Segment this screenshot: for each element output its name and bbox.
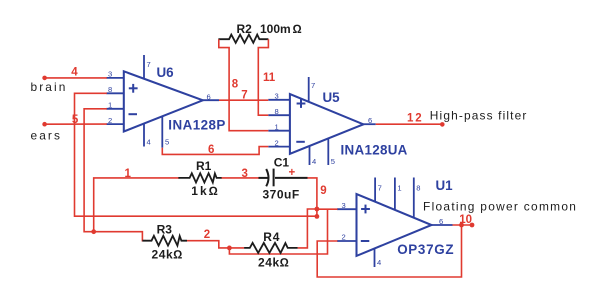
wire 4 brain to U6 pin3: [45, 77, 107, 79]
svg-text:2: 2: [275, 138, 279, 147]
op-amp U1 (OP37GZ triangle): [357, 194, 432, 256]
svg-text:3: 3: [275, 92, 279, 101]
svg-text:C1: C1: [274, 156, 290, 170]
svg-text:4: 4: [377, 258, 381, 267]
svg-text:1: 1: [275, 122, 279, 131]
svg-text:R1: R1: [196, 159, 212, 173]
U5 pin 4 (bottom): [309, 146, 311, 165]
svg-text:8: 8: [275, 107, 279, 116]
svg-text:6: 6: [368, 116, 372, 125]
svg-text:8: 8: [416, 184, 420, 193]
node U1 output junction: [459, 223, 464, 228]
svg-text:5: 5: [331, 157, 335, 166]
U5 pin 5 (ref): [327, 138, 329, 165]
svg-text:24kΩ: 24kΩ: [152, 248, 183, 262]
wire 1 from R1 left down to R3 node: [94, 178, 180, 232]
node brain input: [42, 76, 47, 81]
svg-text:9: 9: [320, 185, 326, 197]
resistor R2 zigzag: [218, 35, 268, 43]
svg-text:7: 7: [378, 184, 382, 193]
U1 minus symbol: [361, 240, 370, 242]
wire 6 U6 pin5 to U5 pin2: [162, 147, 268, 155]
svg-text:2: 2: [342, 233, 346, 242]
svg-text:11: 11: [263, 72, 276, 84]
svg-text:7: 7: [311, 81, 315, 90]
U5 minus symbol: [296, 141, 305, 143]
resistor R4 zigzag: [244, 243, 298, 253]
svg-text:12: 12: [407, 112, 423, 124]
U6 pin 7 (top): [143, 55, 145, 79]
svg-text:3: 3: [342, 201, 346, 210]
U6 minus symbol: [129, 113, 138, 115]
U1 input stubs (pins 3,2): [337, 209, 357, 241]
svg-text:1: 1: [108, 101, 112, 110]
wire 9 C1 right down to node: [308, 178, 317, 217]
svg-text:R2: R2: [237, 22, 253, 36]
wire 7 U6 out to U5 pin3: [219, 99, 268, 101]
node 10 terminal: [470, 223, 475, 228]
U5 plus symbol: [297, 99, 306, 108]
svg-text:5: 5: [72, 114, 79, 126]
op-amp U5 (INA128UA triangle): [290, 94, 364, 154]
node 9 lower dot: [315, 214, 320, 219]
svg-text:High-pass filter: High-pass filter: [430, 109, 528, 123]
svg-text:24kΩ: 24kΩ: [258, 255, 289, 269]
node wire2 junction dot: [227, 246, 232, 251]
U6 pin 5 (ref): [161, 116, 163, 147]
svg-text:OP37GZ: OP37GZ: [397, 242, 454, 257]
wire node9 jog to R4 right: [298, 209, 317, 248]
wire 12 U5 output: [376, 123, 443, 125]
svg-text:3: 3: [242, 168, 248, 180]
wire R2 right lead bracket (net 11): [258, 39, 268, 115]
svg-text:1: 1: [397, 184, 401, 193]
U5 pin stubs left (pins 3,8,1,2): [268, 100, 290, 147]
svg-text:6: 6: [208, 144, 214, 156]
svg-text:8: 8: [108, 85, 112, 94]
U1 pin 1 (top): [394, 178, 396, 210]
wire U1 minus feedback from output bottom rail: [317, 225, 461, 277]
U6 pin stubs left (pins 3,8,1,2): [106, 78, 123, 124]
svg-text:100m: 100m: [260, 22, 291, 36]
U1 output stub pin 6: [432, 224, 453, 226]
svg-text:2: 2: [108, 116, 112, 125]
wire 5 ears to U6 pin2: [45, 123, 107, 125]
svg-text:4: 4: [71, 66, 78, 78]
wire 10 U1 output: [453, 224, 472, 226]
U1 plus symbol: [361, 205, 370, 214]
node 12 terminal: [440, 122, 445, 127]
svg-text:3: 3: [108, 70, 112, 79]
wire R2 left lead bracket (net 8): [219, 39, 268, 131]
U1 pin 8 (top): [413, 178, 415, 218]
wire node9 to U1 pin3: [317, 208, 338, 210]
node 9 upper dot: [315, 207, 320, 212]
svg-text:Ω: Ω: [293, 22, 302, 36]
svg-text:370uF: 370uF: [263, 188, 300, 202]
op-amp U6 (INA128P triangle): [124, 71, 203, 131]
svg-text:8: 8: [232, 79, 239, 91]
svg-text:U1: U1: [436, 178, 454, 193]
wire U6 pin1 down to R3 left: [84, 109, 146, 241]
U5 pin 7 (top): [308, 77, 310, 102]
svg-text:+: +: [289, 167, 296, 179]
svg-text:1: 1: [125, 168, 132, 180]
U1 pin 7 (top): [374, 178, 376, 202]
svg-text:7: 7: [241, 90, 247, 102]
svg-text:INA128UA: INA128UA: [341, 142, 408, 157]
svg-text:4: 4: [312, 157, 316, 166]
svg-text:INA128P: INA128P: [168, 118, 225, 133]
node junction R1/R3/U6pin1: [91, 229, 96, 234]
svg-text:brain: brain: [31, 80, 68, 94]
svg-text:7: 7: [147, 60, 151, 69]
U6 output stub pin 6: [203, 99, 219, 101]
svg-text:10: 10: [459, 214, 472, 226]
wire U6 pin8 down and right rail to node 9: [75, 93, 317, 216]
wire 3 R1 to C1: [222, 177, 260, 179]
capacitor C1: [259, 169, 308, 187]
U6 pin 4 (bottom): [143, 124, 145, 147]
resistor R1 zigzag: [178, 173, 222, 182]
svg-text:U5: U5: [323, 90, 341, 105]
svg-text:5: 5: [165, 137, 169, 146]
U5 output stub pin 6: [363, 123, 375, 125]
wire wire2 rail up to U1 plus line: [229, 209, 327, 254]
svg-text:ears: ears: [31, 129, 63, 143]
svg-text:R4: R4: [263, 230, 280, 244]
svg-text:2: 2: [204, 229, 210, 241]
node ears input: [42, 122, 47, 127]
svg-text:1kΩ: 1kΩ: [191, 184, 220, 198]
resistor R3 zigzag: [142, 236, 187, 246]
svg-text:U6: U6: [157, 65, 174, 80]
svg-text:6: 6: [207, 92, 211, 101]
U1 pin 4 (bottom): [374, 249, 376, 268]
svg-text:R3: R3: [157, 223, 173, 237]
svg-text:6: 6: [439, 217, 443, 226]
wire 2 R3 right to R4 left: [187, 241, 244, 248]
U6 plus symbol: [129, 84, 138, 93]
svg-text:4: 4: [147, 137, 151, 146]
svg-text:Floating power common: Floating power common: [423, 200, 577, 214]
